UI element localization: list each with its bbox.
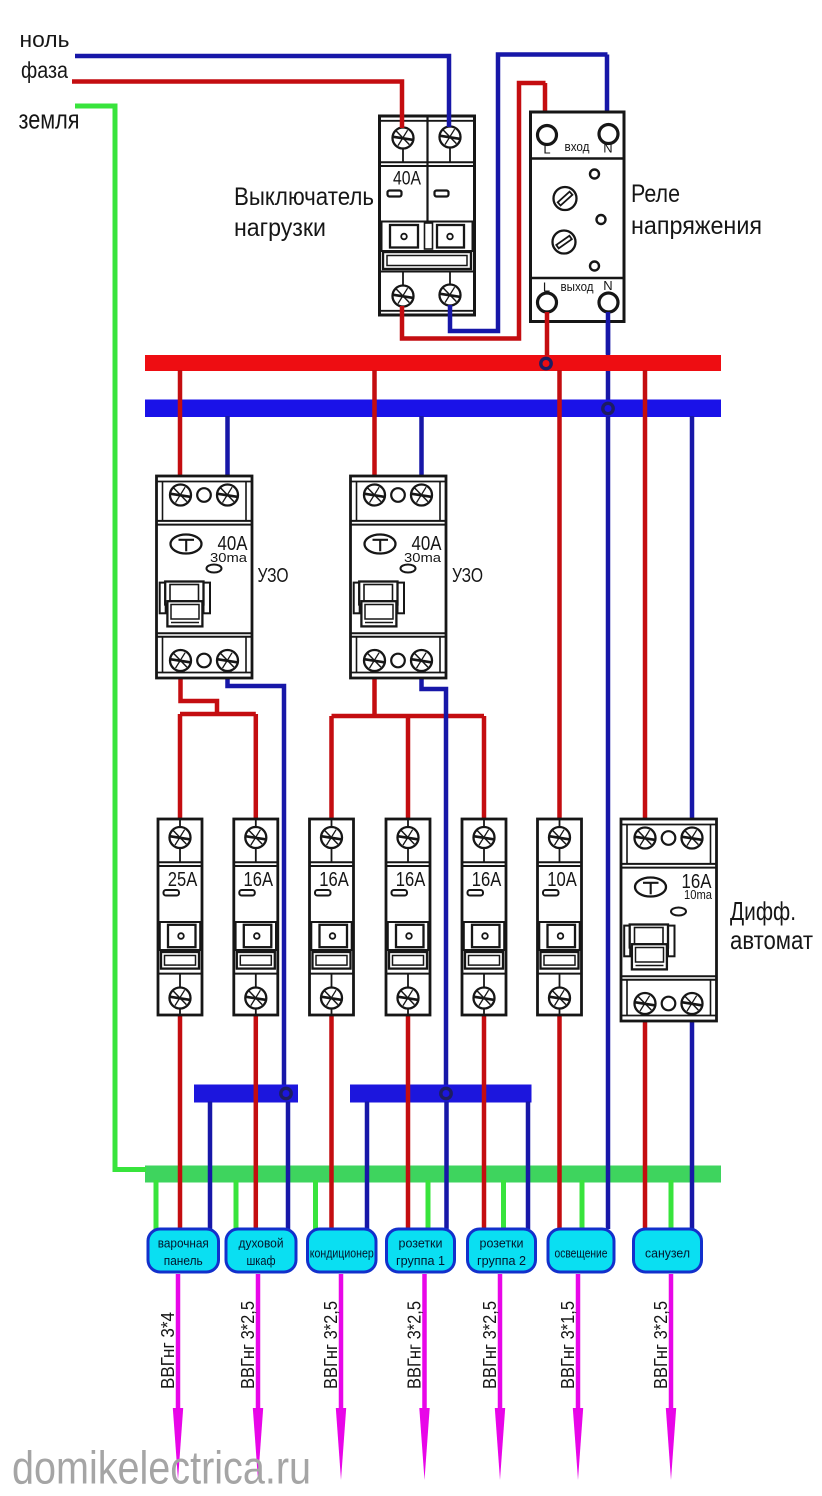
svg-text:духовой: духовой bbox=[239, 1237, 284, 1251]
svg-text:вход: вход bbox=[565, 139, 590, 154]
svg-text:16A: 16A bbox=[319, 869, 349, 891]
svg-text:автомат: автомат bbox=[730, 925, 813, 955]
svg-text:напряжения: напряжения bbox=[631, 212, 762, 240]
svg-text:ВВГнг 3*2,5: ВВГнг 3*2,5 bbox=[480, 1301, 500, 1389]
svg-text:30ma: 30ma bbox=[404, 550, 442, 565]
svg-text:Дифф.: Дифф. bbox=[730, 896, 796, 926]
svg-text:Выключатель: Выключатель bbox=[234, 183, 374, 211]
svg-text:группа 1: группа 1 bbox=[396, 1254, 445, 1268]
svg-text:фаза: фаза bbox=[21, 57, 68, 83]
svg-text:40A: 40A bbox=[393, 169, 421, 190]
svg-text:10ma: 10ma bbox=[684, 888, 712, 902]
svg-text:варочная: варочная bbox=[158, 1237, 209, 1251]
svg-text:ВВГнг 3*1,5: ВВГнг 3*1,5 bbox=[558, 1301, 578, 1389]
svg-text:domikelectrica.ru: domikelectrica.ru bbox=[12, 1442, 311, 1494]
svg-text:нагрузки: нагрузки bbox=[234, 214, 326, 242]
svg-text:земля: земля bbox=[19, 105, 80, 135]
svg-text:16A: 16A bbox=[472, 869, 502, 891]
svg-text:Реле: Реле bbox=[631, 180, 680, 208]
svg-text:16A: 16A bbox=[244, 869, 274, 891]
svg-text:шкаф: шкаф bbox=[247, 1254, 276, 1268]
svg-text:выход: выход bbox=[561, 279, 594, 294]
svg-text:УЗО: УЗО bbox=[258, 565, 289, 587]
svg-text:ВВГнг 3*2,5: ВВГнг 3*2,5 bbox=[238, 1301, 258, 1389]
svg-text:N: N bbox=[603, 141, 612, 156]
svg-text:30ma: 30ma bbox=[210, 550, 248, 565]
svg-text:10A: 10A bbox=[547, 869, 577, 891]
svg-text:L: L bbox=[543, 142, 550, 157]
svg-text:санузел: санузел bbox=[645, 1247, 690, 1261]
svg-text:освещение: освещение bbox=[555, 1247, 608, 1261]
svg-text:УЗО: УЗО bbox=[452, 565, 483, 587]
svg-text:панель: панель bbox=[164, 1254, 203, 1268]
svg-text:ВВГнг 3*2,5: ВВГнг 3*2,5 bbox=[651, 1301, 671, 1389]
svg-text:ВВГнг 3*2,5: ВВГнг 3*2,5 bbox=[405, 1301, 425, 1389]
svg-text:розетки: розетки bbox=[480, 1237, 524, 1251]
svg-text:ВВГнг 3*4: ВВГнг 3*4 bbox=[158, 1312, 178, 1389]
svg-text:розетки: розетки bbox=[399, 1237, 443, 1251]
svg-text:ноль: ноль bbox=[20, 27, 70, 52]
svg-text:ВВГнг 3*2,5: ВВГнг 3*2,5 bbox=[321, 1301, 341, 1389]
svg-text:N: N bbox=[603, 278, 612, 293]
svg-text:группа 2: группа 2 bbox=[477, 1254, 526, 1268]
svg-text:кондиционер: кондиционер bbox=[310, 1247, 374, 1261]
svg-text:L: L bbox=[543, 280, 550, 295]
svg-text:25A: 25A bbox=[168, 869, 198, 891]
svg-text:16A: 16A bbox=[396, 869, 426, 891]
